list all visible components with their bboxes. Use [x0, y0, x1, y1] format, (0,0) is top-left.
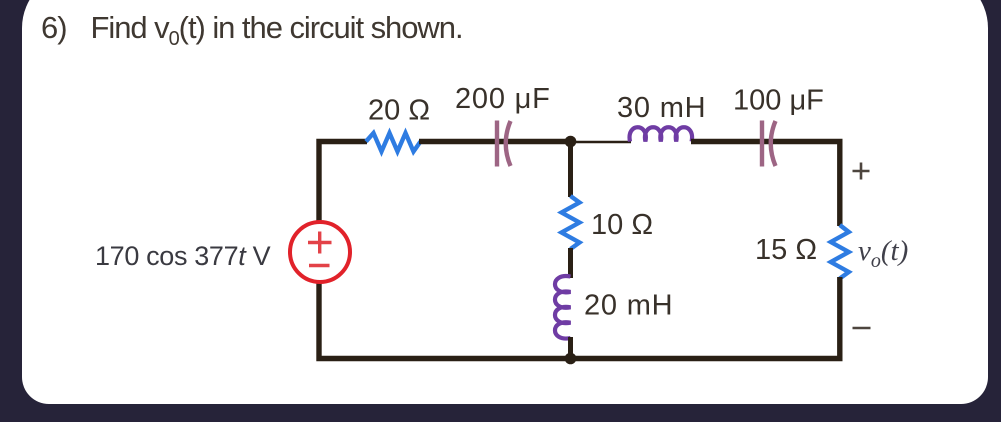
- polarity plus mark: [853, 163, 870, 180]
- svg-text:10 Ω: 10 Ω: [591, 209, 653, 241]
- title text: [41, 12, 463, 43]
- svg-text:15 Ω: 15 Ω: [755, 234, 817, 266]
- capacitor C2 100μF curved plate: [771, 121, 776, 166]
- wire: middle branch top lead: [568, 139, 573, 197]
- inductor L2 20mH coil: [555, 276, 571, 339]
- capacitor C1 200μF straight plate: [495, 121, 499, 167]
- wire: L1 through C2 to top-right corner down to R3: [691, 142, 840, 227]
- svg-text:20 mH: 20 mH: [584, 290, 673, 322]
- svg-text:30 mH: 30 mH: [617, 92, 706, 124]
- capacitor C2 100μF straight plate: [760, 121, 764, 167]
- resistor R3 15Ω zigzag: [831, 225, 849, 279]
- wire: middle branch between R2 and L2: [568, 248, 573, 278]
- wire: left branch up + top-left segment to R1: [319, 142, 367, 224]
- svg-text:vo(t): vo(t): [858, 235, 908, 272]
- polarity minus mark: [853, 327, 871, 330]
- resistor R1 20Ω zigzag: [366, 133, 421, 152]
- svg-text:200 μF: 200 μF: [455, 83, 551, 115]
- source V1 circle: [290, 222, 350, 282]
- source V1 minus sign: [309, 264, 330, 267]
- inductor L1 30mH coil: [630, 127, 693, 141]
- svg-text:100 μF: 100 μF: [733, 85, 824, 117]
- wire: R3 down to bottom-right corner, bottom rail, bottom-left corner up: [319, 277, 840, 359]
- node junction dot bottom: [565, 353, 577, 365]
- svg-text:20 Ω: 20 Ω: [368, 95, 430, 127]
- node junction dot top: [565, 136, 577, 148]
- capacitor C1 200μF curved plate: [506, 121, 511, 166]
- source V1 plus sign: [308, 232, 332, 254]
- resistor R2 10Ω zigzag: [562, 196, 580, 249]
- wire: R1 to junction through C1: [419, 139, 571, 144]
- wire: thin segment junction to L1: [571, 141, 632, 144]
- wire: middle branch bottom lead: [568, 337, 573, 359]
- svg-text:170 cos 377t V: 170 cos 377t V: [95, 241, 271, 271]
